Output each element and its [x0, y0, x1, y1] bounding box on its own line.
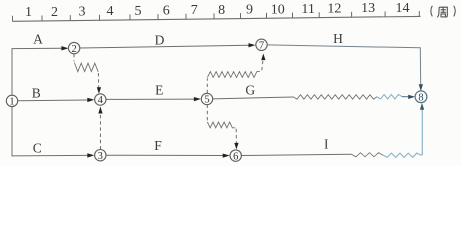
svg-text:8: 8 — [218, 3, 225, 18]
svg-text:13: 13 — [361, 1, 375, 16]
dummy arrow node5 to node6: upper dashes — [206, 105, 208, 122]
ruler week numbers 1-14 — [25, 1, 410, 20]
wire: start node vertical riser to top chain — [11, 49, 13, 96]
svg-text:4: 4 — [98, 95, 104, 106]
svg-text:1: 1 — [9, 97, 14, 108]
node 1 — [6, 95, 17, 107]
svg-text:14: 14 — [396, 1, 410, 16]
svg-text:F: F — [154, 138, 162, 153]
activity I arrowhead into node 8 — [420, 103, 424, 110]
svg-text:B: B — [32, 86, 41, 101]
dummy 2-4 free float wavy line — [74, 63, 98, 72]
svg-text:12: 12 — [327, 2, 341, 17]
svg-text:2: 2 — [71, 44, 76, 55]
free float wavy line of G (gray part) — [294, 95, 378, 99]
node 8 (blue) — [415, 91, 427, 104]
activity A arrow — [12, 46, 69, 50]
svg-text:G: G — [245, 83, 255, 98]
dummy arrow node3 to node4 (vertical dashed, arrow up) — [98, 107, 102, 150]
svg-text:5: 5 — [135, 4, 142, 19]
svg-text:2: 2 — [51, 5, 58, 20]
svg-text:7: 7 — [259, 41, 264, 52]
svg-text:A: A — [33, 32, 43, 47]
activity I arrow solid lead — [242, 154, 352, 155]
activity C arrow — [12, 153, 95, 157]
time scale ruler line — [13, 16, 421, 21]
dummy arrow node2 to node4: upper dashes — [73, 54, 75, 61]
node 7 — [256, 39, 267, 51]
node 4 — [95, 94, 106, 106]
wire: start node vertical drop to bottom chain — [11, 106, 13, 155]
node 2 — [68, 42, 79, 54]
node 3 — [95, 150, 106, 162]
free float wavy line of I (gray part) — [352, 153, 384, 157]
unit label (周) — [431, 6, 455, 17]
dummy arrow node5 to node7: lower dashes — [206, 78, 208, 93]
svg-text:H: H — [333, 31, 343, 46]
activity E arrow — [106, 97, 201, 101]
svg-text:C: C — [33, 141, 42, 156]
ruler tick marks — [13, 11, 420, 21]
activity I riser up to node 8 (blue) — [421, 109, 422, 155]
svg-text:9: 9 — [246, 3, 253, 18]
free float wavy line of I (blue part) — [383, 153, 421, 157]
node 6 — [230, 150, 241, 162]
activity F arrow — [106, 154, 230, 158]
activity B arrow — [18, 98, 95, 102]
dummy 5-7 free float wavy line — [207, 72, 259, 78]
svg-text:4: 4 — [107, 4, 114, 19]
svg-text:1: 1 — [25, 5, 32, 20]
node 5 — [201, 93, 212, 105]
activity G arrow solid lead — [213, 97, 294, 99]
svg-text:3: 3 — [98, 151, 103, 162]
svg-text:10: 10 — [271, 2, 285, 17]
svg-text:7: 7 — [191, 3, 198, 18]
svg-text:I: I — [324, 137, 329, 152]
dummy 5-6 free float wavy line — [207, 122, 235, 128]
dummy 5-6 lower dashed leg with arrowhead — [234, 129, 238, 150]
dummy 2-4 lower dashed leg with arrowhead — [97, 73, 101, 94]
activity D arrow — [80, 43, 256, 48]
svg-text:11: 11 — [301, 2, 314, 17]
svg-text:3: 3 — [79, 5, 86, 20]
svg-text:6: 6 — [163, 4, 170, 19]
svg-text:6: 6 — [233, 151, 238, 162]
activity H arrow (with corner down to node 8) — [267, 45, 423, 91]
svg-text:D: D — [155, 33, 165, 48]
svg-text:5: 5 — [204, 95, 209, 106]
svg-text:E: E — [155, 83, 163, 98]
svg-text:8: 8 — [418, 93, 423, 104]
activity G arrowhead into node 8 — [402, 95, 415, 99]
dummy 5-7 upper dashed leg with arrowhead — [261, 54, 265, 71]
free float wavy line of G (blue part) — [377, 95, 402, 99]
